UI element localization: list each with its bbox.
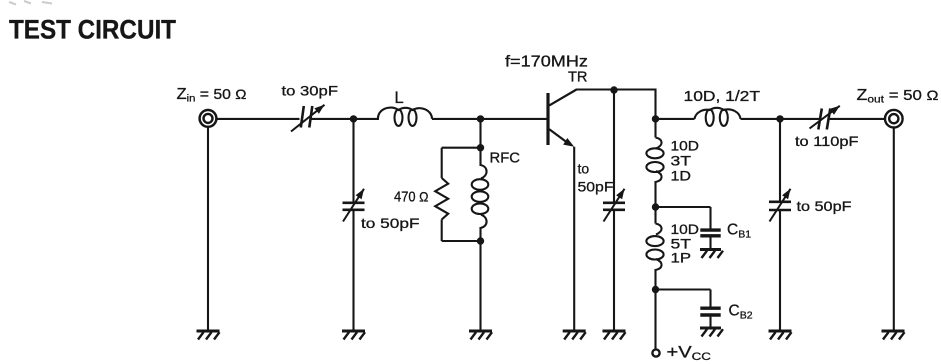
node A junction (350, 115, 357, 122)
wire node A down to C2 (352, 119, 354, 203)
Q1 emitter lead with arrow (549, 129, 568, 143)
wire node G to RFC (479, 148, 481, 166)
variable capacitor C2 to 50pF (shunt input) (343, 202, 365, 205)
capacitor CB2 (700, 307, 720, 310)
ground (C3) (603, 330, 626, 333)
wire node C to L2 (656, 118, 695, 120)
svg-text:f=170MHz: f=170MHz (505, 53, 588, 70)
Q1 collector lead (549, 90, 576, 106)
variable capacitor C1 to 30pF (series) (301, 106, 304, 128)
wire C1 to node A (311, 118, 354, 120)
wire collector rail corner down to node C (654, 89, 656, 119)
capacitor CB1 (700, 228, 720, 231)
wire R1 bottom to node H (442, 240, 481, 242)
wire node D down to C4 (779, 119, 781, 202)
wire C3 to ground (613, 210, 615, 331)
svg-text:TR: TR (568, 70, 588, 86)
ground (input terminal) (197, 330, 220, 333)
ground (RFC branch) (469, 330, 492, 333)
node C junction (652, 115, 659, 122)
node H junction (477, 237, 484, 244)
wire J1 down to ground (207, 128, 209, 332)
svg-text:1D: 1D (671, 168, 692, 184)
svg-text:470 Ω: 470 Ω (394, 189, 429, 206)
wire node H to ground (479, 241, 481, 331)
svg-text:L: L (395, 89, 404, 107)
inductor RFC (481, 165, 487, 179)
svg-text:1P: 1P (671, 250, 692, 266)
ground (CB1) (700, 248, 721, 251)
inductor L3 10D 3T 1D (656, 138, 662, 149)
inductor L (378, 108, 432, 119)
wire C2 to ground (352, 210, 354, 331)
svg-text:to 110pF: to 110pF (795, 133, 859, 149)
wire R1 bottom lead (441, 220, 443, 242)
node D junction (776, 115, 783, 122)
node G junction (477, 144, 484, 151)
svg-text:TEST CIRCUIT: TEST CIRCUIT (9, 15, 176, 45)
svg-text:3T: 3T (671, 152, 692, 168)
scan smudge top-left (faint) (9, 1, 52, 5)
variable capacitor C4 to 50pF (output shunt) (769, 201, 791, 204)
terminal J1 Zin input (200, 110, 217, 127)
wire CB2 to ground (709, 317, 711, 328)
wire L4 to node F (654, 269, 656, 290)
wire emitter down to ground (573, 147, 575, 331)
svg-text:to 50pF: to 50pF (797, 198, 852, 214)
inductor L4 wire top (654, 207, 656, 224)
variable capacitor C5 to 110pF (series) (818, 109, 822, 130)
ground (output terminal) (882, 330, 905, 333)
wire J2 down to ground (893, 128, 895, 332)
capacitor CB1 branch wire (656, 206, 711, 208)
node I junction at RFC tap (477, 115, 484, 122)
inductor L2 10D 1/2T (695, 108, 741, 119)
svg-text:to: to (578, 161, 590, 177)
capacitor CB2 branch wire (656, 288, 711, 290)
transistor Q1 TR base bar (546, 93, 549, 145)
wire RFC to node H (479, 227, 481, 241)
wire node F to VCC terminal (654, 290, 656, 349)
wire C5 to J2 (830, 118, 886, 120)
svg-text:10D, 1/2T: 10D, 1/2T (684, 88, 761, 105)
wire node D to C5 (780, 118, 821, 120)
wire collector rail (576, 88, 657, 90)
wire C4 to ground (779, 210, 781, 331)
ground (CB2) (700, 327, 721, 330)
wire L to Q1 base (432, 118, 547, 120)
node E junction (652, 203, 659, 210)
wire L2 to node D (741, 118, 781, 120)
wire J1 to C1 (216, 118, 299, 120)
inductor L3 wire top (654, 119, 656, 138)
wire node I down to node G (479, 119, 481, 148)
svg-text:RFC: RFC (490, 151, 521, 167)
wire node B down to C3 (613, 90, 615, 203)
ground (input shunt) (342, 330, 365, 333)
svg-text:to 30pF: to 30pF (282, 83, 339, 99)
wire node A to L (354, 118, 380, 120)
svg-text:50pF: 50pF (578, 179, 614, 195)
svg-text:10D: 10D (671, 137, 700, 153)
wire CB1 to ground (709, 237, 711, 249)
inductor L4 10D 5T 1P (656, 224, 662, 235)
resistor R1 470 ohm (435, 178, 448, 220)
variable capacitor C3 to 50pF (emitter side) (603, 202, 625, 205)
node B junction (610, 86, 617, 93)
terminal J2 Zout output (885, 110, 903, 128)
node F junction (652, 286, 659, 293)
wire node G left to R1 top (442, 147, 481, 149)
ground (C4) (769, 330, 792, 333)
svg-text:to 50pF: to 50pF (361, 215, 420, 231)
wire L3 to node E (654, 181, 656, 207)
ground (emitter) (563, 330, 586, 333)
terminal +VCC (652, 349, 659, 356)
wire R1 top lead (441, 148, 443, 178)
